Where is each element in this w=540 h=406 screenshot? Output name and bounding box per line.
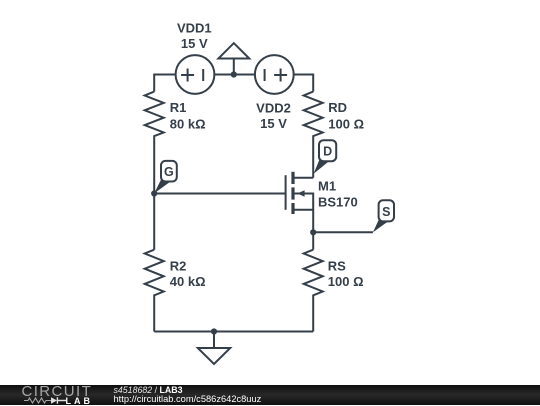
svg-text:BS170: BS170 (318, 195, 358, 210)
svg-text:15 V: 15 V (181, 36, 208, 51)
svg-text:RD: RD (328, 100, 347, 115)
svg-text:100 Ω: 100 Ω (328, 274, 364, 289)
svg-text:100 Ω: 100 Ω (328, 116, 364, 131)
svg-text:VDD2: VDD2 (256, 100, 291, 115)
svg-text:15 V: 15 V (260, 116, 287, 131)
svg-text:R2: R2 (170, 258, 187, 273)
svg-text:D: D (323, 144, 332, 158)
svg-text:S: S (382, 205, 390, 219)
svg-text:80 kΩ: 80 kΩ (170, 116, 206, 131)
svg-text:RS: RS (328, 258, 346, 273)
svg-text:40 kΩ: 40 kΩ (170, 274, 206, 289)
svg-text:VDD1: VDD1 (177, 21, 212, 36)
svg-text:G: G (164, 165, 174, 179)
svg-text:R1: R1 (170, 100, 187, 115)
svg-text:M1: M1 (318, 179, 336, 194)
